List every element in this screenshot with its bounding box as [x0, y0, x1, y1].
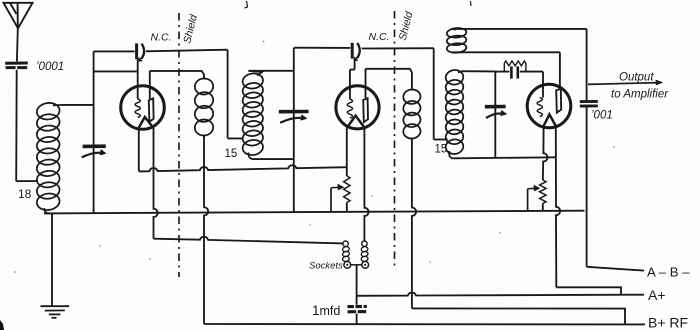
wire L5 bottom to filament	[454, 157, 556, 158]
svg-text:A+: A+	[648, 287, 666, 303]
svg-text:1mfd: 1mfd	[312, 303, 340, 318]
wire stage1 tuning vertical	[93, 51, 95, 213]
wire antenna tap to coil L1	[16, 180, 38, 182]
wire filament tie V1 to V2	[139, 165, 347, 171]
tube V3 filament	[544, 114, 556, 126]
rheostat R3 wiper arrow	[528, 185, 539, 211]
wire V2 right leg	[364, 126, 368, 241]
wire grid2 horizontal	[350, 69, 355, 71]
wire A+ line	[357, 293, 644, 296]
shield 1 partition	[178, 13, 180, 277]
wire socket junction down	[356, 265, 358, 305]
tube V2 filament	[347, 116, 364, 127]
variable capacitor VC1	[82, 146, 106, 157]
tube V3 envelope	[527, 84, 571, 128]
socket pigtail right	[361, 246, 369, 262]
wire R3 bottom to bus	[542, 204, 544, 212]
wire L5 top to grid node 3	[462, 70, 495, 72]
wire ground lead	[51, 213, 53, 305]
wire grid1 node to NC1	[94, 50, 135, 52]
wire antenna lead upper	[16, 28, 19, 61]
wire grid1 horizontal	[94, 70, 138, 72]
wire plate2 lead	[365, 69, 367, 98]
svg-text:15: 15	[435, 144, 448, 156]
rheostat R3	[540, 180, 546, 204]
inductor L5 secondary	[445, 69, 464, 158]
tube V1 plate	[149, 98, 154, 121]
socket pigtail left	[342, 246, 350, 262]
tube V2 grid	[347, 99, 352, 118]
wire output vertical upper	[586, 29, 588, 100]
wire B+RF feed	[412, 308, 625, 324]
wire plate3 to L6	[452, 51, 560, 53]
inductor L3 secondary	[242, 71, 264, 159]
wire output line	[588, 80, 662, 85]
wire V1 right leg	[154, 128, 158, 239]
wire 1mfd to bottom bus	[356, 314, 358, 325]
shield 2 partition	[394, 11, 396, 268]
wire plate3 lead	[559, 52, 561, 89]
wire V2 left leg	[346, 126, 348, 176]
svg-text:Output: Output	[619, 72, 654, 84]
wire grid node 3 to grid leak	[495, 71, 509, 73]
resistor grid leak	[504, 61, 526, 72]
wire NC1 bottom drop	[137, 59, 139, 71]
svg-text:A – B –: A – B –	[647, 265, 690, 280]
wire NC1 to neut tap	[146, 50, 228, 52]
wire V1 left leg	[138, 128, 140, 172]
wire L3 top to grid node 2	[248, 70, 293, 72]
capacitor output .001	[580, 101, 598, 106]
tube V1 filament	[139, 117, 153, 128]
rheostat R2 wiper arrow	[331, 184, 343, 212]
wire V1 right leg to socket	[154, 237, 344, 244]
socket terminal upper right	[362, 241, 367, 246]
wire grid3 lead	[542, 72, 544, 98]
wire L1 top to grid node	[60, 104, 93, 106]
scan mark top	[245, 1, 248, 8]
svg-text:’0001: ’0001	[36, 61, 64, 73]
svg-text:18: 18	[18, 187, 32, 201]
capacitor 1mfd	[347, 306, 367, 311]
inductor L2 plate coil	[194, 78, 214, 137]
wire V3 left leg	[543, 126, 548, 180]
socket terminal lower right	[362, 261, 369, 268]
wire plate2 to L4	[366, 69, 412, 91]
wire R2 bottom to bus	[346, 203, 348, 213]
wire grid2 node to NC2	[294, 47, 350, 49]
wire main A-minus bus	[44, 211, 585, 214]
inductor L4 plate coil	[403, 89, 422, 140]
capacitor NC2	[352, 43, 360, 61]
wire plate1 lead	[149, 71, 151, 99]
wire stage2 tuning vertical	[293, 48, 295, 213]
variable capacitor VC2	[279, 112, 309, 123]
wire V3 right leg to A+	[556, 287, 621, 295]
wire neut tap 1 vertical	[227, 50, 229, 139]
socket terminal lower left	[344, 261, 351, 268]
capacitor grid condenser	[511, 66, 517, 78]
variable capacitor VC3	[485, 107, 506, 119]
capacitor antenna series .0001	[5, 63, 28, 68]
scan smudge corner	[0, 320, 4, 330]
wire neut tap 1 to coil L3	[228, 137, 244, 139]
wire bottom B+ bus	[204, 323, 645, 325]
tube V3 grid	[537, 98, 542, 117]
tube V2 envelope	[336, 86, 379, 129]
inductor L6 output primary	[446, 27, 466, 53]
antenna	[4, 3, 33, 29]
socket terminal upper left	[343, 241, 348, 246]
svg-text:to Amplifier: to Amplifier	[611, 89, 669, 101]
wire NC2 to neut tap 2	[362, 47, 434, 49]
wire L2 bottom to B+ bus	[204, 135, 208, 325]
wire V3 right leg	[556, 126, 560, 287]
tube V3 plate	[556, 89, 561, 113]
capacitor NC1	[137, 43, 145, 61]
svg-text:B+ RF: B+ RF	[648, 315, 688, 330]
wire grid2 lead	[349, 70, 351, 99]
inductor L1 antenna coil	[36, 101, 61, 213]
wire antenna lead lower	[15, 70, 18, 181]
svg-text:’001: ’001	[591, 110, 613, 122]
scan specks	[14, 41, 615, 273]
tube V2 plate	[363, 98, 368, 122]
wire neut tap 2 to coil L5	[434, 139, 448, 141]
wire socket link	[351, 264, 362, 266]
svg-text:Sockets: Sockets	[309, 261, 343, 272]
wire to A-B-	[587, 267, 644, 271]
wire grid leak to grid3	[520, 71, 543, 73]
svg-text:N.C.: N.C.	[151, 32, 172, 44]
wire output vertical lower	[586, 108, 588, 267]
wire L6 top rail	[453, 28, 587, 30]
scan mark top2	[470, 1, 473, 6]
wire grid1 lead	[137, 71, 139, 99]
tube V1 grid	[135, 99, 140, 118]
wire L4 bottom to B+RF	[412, 138, 416, 309]
wire NC2 bottom drop	[354, 59, 356, 70]
wire stage3 tuning vertical	[494, 71, 496, 158]
rheostat R2	[344, 176, 350, 203]
ground	[41, 306, 70, 318]
svg-text:N.C.: N.C.	[369, 31, 390, 43]
wire L3 bottom to bus	[254, 158, 294, 160]
wire plate1 to L2	[150, 71, 204, 80]
svg-text:15: 15	[225, 148, 238, 160]
tube V1 envelope	[121, 86, 165, 130]
wire neut tap 2 vertical	[433, 48, 435, 139]
